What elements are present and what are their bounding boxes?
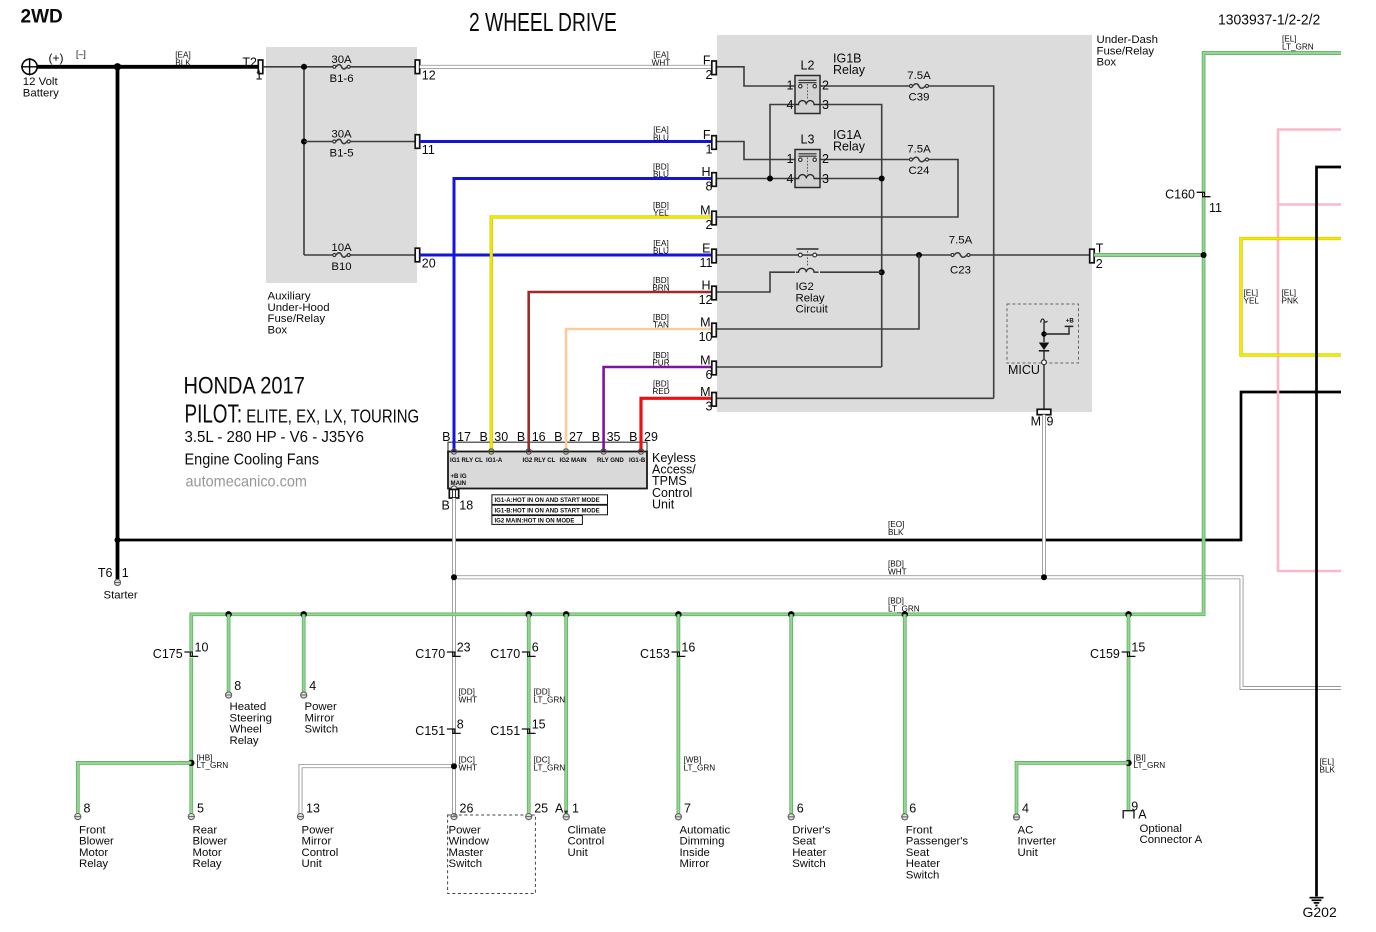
label power mirror control unit xyxy=(302,824,339,870)
svg-text:C153: C153 xyxy=(640,647,670,661)
svg-text:WHT: WHT xyxy=(888,567,907,576)
label C159 15 xyxy=(1090,641,1145,662)
svg-text:Inside: Inside xyxy=(680,847,710,859)
wire to fuse B10 xyxy=(304,254,333,256)
svg-text:15: 15 xyxy=(532,718,546,732)
svg-text:Dimming: Dimming xyxy=(680,836,725,848)
svg-text:7.5A: 7.5A xyxy=(907,143,931,155)
connector C175 xyxy=(184,651,198,657)
wire drop C159 to optional connector (lt green) xyxy=(1127,614,1131,810)
connector pin F2 xyxy=(712,61,717,75)
fuse B1-5 30A xyxy=(333,139,415,143)
MICU boundary circle xyxy=(1042,360,1047,365)
terminal pin 25 xyxy=(526,814,532,820)
node bus climate drop xyxy=(563,611,569,617)
fuse C24 7.5A xyxy=(910,157,929,162)
svg-text:26: 26 xyxy=(460,802,474,816)
label 7.5A C23 xyxy=(949,234,973,276)
svg-text:BLK: BLK xyxy=(888,528,904,537)
connector pin 20 xyxy=(415,248,420,262)
svg-text:Power: Power xyxy=(449,824,481,836)
fuse B10 10A xyxy=(333,253,415,257)
wire branch to power mirror control unit (white) xyxy=(301,766,455,813)
wire label [EA] BLK xyxy=(175,51,191,68)
terminal passenger seat pin 6 xyxy=(902,814,908,820)
svg-text:5: 5 xyxy=(197,802,204,816)
label E 11 xyxy=(700,242,713,271)
note box IG1-A xyxy=(492,495,608,505)
svg-text:4: 4 xyxy=(309,679,316,693)
svg-text:Mirror: Mirror xyxy=(305,712,335,724)
svg-text:10: 10 xyxy=(699,330,713,344)
svg-text:B: B xyxy=(479,430,487,444)
svg-text:IG1-B:HOT IN ON AND START MODE: IG1-B:HOT IN ON AND START MODE xyxy=(495,509,600,515)
terminal rear blower pin 5 xyxy=(188,814,194,820)
auxiliary under-hood fuse/relay box xyxy=(266,47,417,283)
connector C170 23 on white drop xyxy=(447,652,461,656)
wire label [BD] WHT xyxy=(888,560,907,577)
svg-text:PUR: PUR xyxy=(652,359,669,368)
svg-text:M: M xyxy=(700,354,710,368)
svg-text:30A: 30A xyxy=(331,54,352,66)
svg-text:B1-5: B1-5 xyxy=(329,148,353,160)
svg-text:IG1-A:HOT IN ON AND START MODE: IG1-A:HOT IN ON AND START MODE xyxy=(495,498,600,504)
svg-text:Switch: Switch xyxy=(449,858,483,870)
svg-text:Unit: Unit xyxy=(1018,847,1039,859)
svg-text:C24: C24 xyxy=(909,165,930,177)
svg-text:C175: C175 xyxy=(153,647,183,661)
keyless pin circle B29 xyxy=(638,449,643,454)
wire MICU circle to M9 pin xyxy=(1043,365,1045,410)
svg-text:ELITE, EX, LX, TOURING: ELITE, EX, LX, TOURING xyxy=(246,406,419,427)
svg-text:F: F xyxy=(703,128,711,142)
svg-text:RLY GND: RLY GND xyxy=(597,457,624,464)
svg-text:Optional: Optional xyxy=(1140,823,1182,835)
battery B1 xyxy=(21,58,38,75)
label C153 16 xyxy=(640,641,695,662)
connector pin M2 xyxy=(712,211,717,225)
label B 18 xyxy=(441,499,473,513)
IG2 relay circuit coil xyxy=(796,268,819,272)
label T6 1 xyxy=(98,566,129,580)
terminal heated steering pin 8 xyxy=(226,692,232,698)
svg-text:IG2: IG2 xyxy=(796,281,814,293)
wire label [BD] TAN xyxy=(653,313,669,330)
svg-text:C170: C170 xyxy=(415,647,445,661)
note box IG1-B xyxy=(492,505,608,515)
wire B27 to M10 (tan) xyxy=(566,329,712,452)
svg-text:17: 17 xyxy=(457,430,471,444)
wire label [EA] BLU lower xyxy=(653,239,669,256)
node HB branch junction xyxy=(188,760,194,766)
node bus drivers seat drop xyxy=(788,611,794,617)
svg-text:2 WHEEL DRIVE: 2 WHEEL DRIVE xyxy=(469,7,617,37)
keyless pin circle B30 xyxy=(489,449,494,454)
label front passengers seat heater switch xyxy=(906,824,969,881)
relay L3 IG1A xyxy=(795,150,820,188)
svg-text:8: 8 xyxy=(706,180,713,194)
svg-text:BLU: BLU xyxy=(653,170,669,179)
svg-text:Heater: Heater xyxy=(792,847,826,859)
svg-text:8: 8 xyxy=(457,718,464,732)
svg-text:Blower: Blower xyxy=(193,836,228,848)
label 7.5A C24 xyxy=(907,143,931,177)
svg-text:LT_GRN: LT_GRN xyxy=(534,695,566,704)
svg-text:7.5A: 7.5A xyxy=(907,70,931,82)
label under-dash box name xyxy=(1097,34,1158,69)
wire B16 to H12 (brown-red) xyxy=(529,292,712,452)
svg-text:Front: Front xyxy=(906,824,933,836)
wire EL PNK pink net xyxy=(1278,130,1341,572)
svg-text:9: 9 xyxy=(1131,800,1138,814)
label T 2 right xyxy=(1096,242,1104,272)
label heated steering wheel relay xyxy=(230,701,272,747)
label M 10 xyxy=(699,316,713,345)
label keyless pin names xyxy=(450,457,646,464)
svg-text:12: 12 xyxy=(699,293,713,307)
svg-text:6: 6 xyxy=(706,368,713,382)
svg-text:E: E xyxy=(702,242,710,256)
svg-text:30: 30 xyxy=(494,430,508,444)
wire drop power mirror switch (lt green) xyxy=(302,614,306,692)
wire B17 to H8 (blue) xyxy=(454,179,712,453)
svg-text:Mirror: Mirror xyxy=(302,836,332,848)
svg-text:27: 27 xyxy=(569,430,583,444)
svg-text:YEL: YEL xyxy=(653,209,669,218)
svg-text:8: 8 xyxy=(84,802,91,816)
svg-text:C151: C151 xyxy=(415,724,445,738)
svg-text:7: 7 xyxy=(684,802,691,816)
terminal drivers seat pin 6 xyxy=(788,814,794,820)
wire B30 to M2 (yellow) xyxy=(491,217,712,452)
svg-text:Inverter: Inverter xyxy=(1018,836,1057,848)
svg-text:+B IG: +B IG xyxy=(451,473,467,480)
terminal power window master pin 26 xyxy=(451,814,457,820)
under-dash internal wire E11 through IG2 contact and fuse C23 to T2 xyxy=(714,254,1090,256)
wire inside under-hood box from T2 xyxy=(263,66,333,68)
wire drop passenger seat heater (lt green) xyxy=(903,614,907,813)
svg-text:T2: T2 xyxy=(242,56,257,70)
svg-text:1: 1 xyxy=(256,69,263,83)
wire EL BLK black net to ground xyxy=(1317,167,1342,897)
wire label [BD] LT_GRN bus xyxy=(888,597,920,614)
under-dash internal wire F1 to L3 pin1 xyxy=(714,142,795,160)
connector pin T2 right xyxy=(1090,249,1095,263)
keyless pin circle B35 xyxy=(601,449,606,454)
svg-text:9: 9 xyxy=(1047,415,1054,429)
connector pin H12 xyxy=(712,286,717,300)
wire B35 to M6 (purple) xyxy=(604,367,712,452)
svg-text:Automatic: Automatic xyxy=(680,824,731,836)
label IG1A Relay xyxy=(833,128,866,154)
svg-text:WHT: WHT xyxy=(652,58,671,67)
ground G202 xyxy=(1310,897,1324,907)
wire drop to C175 rear blower (lt green) xyxy=(189,658,193,814)
label auxiliary box name xyxy=(268,291,330,337)
connector pin E11 xyxy=(712,249,717,263)
svg-text:10A: 10A xyxy=(331,242,352,254)
svg-text:Unit: Unit xyxy=(302,858,323,870)
svg-text:11: 11 xyxy=(1209,201,1222,215)
label AC inverter unit xyxy=(1018,824,1057,859)
svg-text:C39: C39 xyxy=(909,91,930,103)
wire drop climate control (lt green) xyxy=(564,614,568,813)
svg-text:2: 2 xyxy=(822,79,829,93)
svg-text:2: 2 xyxy=(1096,257,1103,271)
svg-text:B10: B10 xyxy=(331,261,351,273)
IG2 relay circuit contact xyxy=(797,249,819,267)
connector C159 15 xyxy=(1122,651,1136,657)
label keyless unit name xyxy=(652,451,696,511)
svg-text:Unit: Unit xyxy=(568,847,589,859)
wire pin12 to F2 (white) xyxy=(420,65,712,69)
svg-text:PNK: PNK xyxy=(1282,296,1299,305)
label C151 8 xyxy=(415,718,463,739)
svg-text:1: 1 xyxy=(572,802,579,816)
marker climate terminal triangle xyxy=(564,811,568,815)
node B18 BD WHT junction xyxy=(451,574,457,580)
svg-text:Power: Power xyxy=(302,824,334,836)
wire label [EL] LT_GRN top xyxy=(1282,35,1314,52)
wire EL YEL yellow net xyxy=(1241,239,1341,356)
label T2 1 xyxy=(242,56,262,83)
svg-text:B: B xyxy=(517,430,525,444)
label IG1B Relay xyxy=(833,51,866,77)
svg-text:TAN: TAN xyxy=(653,321,669,330)
connector T6 pin 1 starter terminal xyxy=(114,579,120,585)
svg-text:MICU: MICU xyxy=(1008,363,1040,377)
svg-text:6: 6 xyxy=(532,641,539,655)
label +B IG MAIN xyxy=(451,473,467,487)
svg-text:B1-6: B1-6 xyxy=(329,73,353,85)
svg-text:Relay: Relay xyxy=(79,858,108,870)
wire pin11 to F1 (blue) xyxy=(420,140,712,143)
label power mirror switch xyxy=(305,701,339,736)
node BI branch junction xyxy=(1125,760,1131,766)
connector pin 12 xyxy=(415,60,420,74)
svg-text:Auxiliary: Auxiliary xyxy=(268,291,311,303)
under-dash internal wire L2 pin2 through fuse C39 down to M3 xyxy=(714,86,994,398)
svg-text:AC: AC xyxy=(1018,824,1034,836)
svg-text:B: B xyxy=(592,430,600,444)
svg-text:+B: +B xyxy=(1066,318,1075,325)
note box IG2 MAIN xyxy=(492,516,583,525)
wire [EO] BLK branch to right side xyxy=(118,392,1342,540)
connector C160 xyxy=(1197,192,1211,198)
connector T2 pin 1 xyxy=(258,60,263,74)
svg-text:6: 6 xyxy=(909,802,916,816)
node bus C170-6 drop xyxy=(526,611,532,617)
svg-text:BRN: BRN xyxy=(652,284,669,293)
svg-text:M: M xyxy=(700,316,710,330)
svg-text:YEL: YEL xyxy=(1244,296,1260,305)
label M 6 xyxy=(700,354,712,383)
node bus passenger seat drop xyxy=(902,611,908,617)
node E11 C23 junction xyxy=(916,252,922,258)
svg-text:1: 1 xyxy=(706,143,713,157)
terminal auto dimming pin 7 xyxy=(675,814,681,820)
wire label [EL] YEL xyxy=(1244,289,1260,306)
svg-text:Blower: Blower xyxy=(79,836,114,848)
relay L2 IG1B xyxy=(795,76,820,114)
svg-text:LT_GRN: LT_GRN xyxy=(684,763,716,772)
svg-text:Wheel: Wheel xyxy=(230,724,262,736)
svg-text:M: M xyxy=(700,204,710,218)
svg-text:LT_GRN: LT_GRN xyxy=(1134,761,1166,770)
label M 9 xyxy=(1031,415,1054,429)
svg-text:IG2 MAIN:HOT IN ON MODE: IG2 MAIN:HOT IN ON MODE xyxy=(495,519,575,525)
svg-text:IG2 MAIN: IG2 MAIN xyxy=(560,457,587,464)
node L3 pin3 junction xyxy=(879,176,885,182)
svg-text:B: B xyxy=(554,430,562,444)
node bus heated steering drop xyxy=(225,611,231,617)
node IG2 coil junction xyxy=(879,269,885,275)
svg-text:Motor: Motor xyxy=(79,847,108,859)
keyless pin circle B27 xyxy=(563,449,568,454)
svg-text:16: 16 xyxy=(681,641,695,655)
wire to fuse B1-5 xyxy=(304,141,333,143)
svg-text:30A: 30A xyxy=(331,129,352,141)
label relay L2 pins 1 2 4 3 xyxy=(787,79,829,112)
svg-text:2: 2 xyxy=(706,218,713,232)
svg-text:20: 20 xyxy=(422,257,436,271)
wire label [BD] BLU xyxy=(653,162,669,179)
svg-text:1: 1 xyxy=(122,566,129,580)
svg-text:12 Volt: 12 Volt xyxy=(23,76,59,88)
svg-text:F: F xyxy=(703,53,711,67)
node power mirror branch junction xyxy=(451,763,457,769)
label H 8 xyxy=(701,165,712,194)
svg-text:Relay: Relay xyxy=(833,63,866,77)
svg-text:2: 2 xyxy=(706,68,713,82)
svg-text:B: B xyxy=(442,430,450,444)
fuse B1-6 30A xyxy=(333,65,415,69)
svg-text:Heater: Heater xyxy=(906,858,940,870)
svg-text:C160: C160 xyxy=(1165,188,1195,202)
svg-text:18: 18 xyxy=(459,499,473,513)
wire M9 down to BD WHT junction (white) xyxy=(1042,415,1046,578)
svg-text:Switch: Switch xyxy=(906,870,940,882)
svg-text:1303937-1/2-2/2: 1303937-1/2-2/2 xyxy=(1218,12,1320,29)
svg-text:T6: T6 xyxy=(98,566,113,580)
wire label [EA] BLU xyxy=(653,126,669,143)
svg-text:L2: L2 xyxy=(801,59,815,73)
node bus C159 drop xyxy=(1125,611,1131,617)
wire label [BI] LT_GRN xyxy=(1134,753,1166,770)
wire pin20 to E11 (blue) xyxy=(420,254,712,257)
label relay L3 pins 1 2 4 3 xyxy=(787,152,829,186)
wire BD WHT horizontal and right path (white) xyxy=(454,577,1341,688)
keyless pin circle B17 xyxy=(451,449,456,454)
svg-text:LT_GRN: LT_GRN xyxy=(197,761,229,770)
label H 12 xyxy=(699,279,713,308)
connector pin 11 xyxy=(415,135,420,149)
label IG2 Relay Circuit xyxy=(796,281,829,316)
svg-text:4: 4 xyxy=(787,172,794,186)
svg-text:Under-Dash: Under-Dash xyxy=(1097,34,1158,46)
svg-text:Switch: Switch xyxy=(792,858,826,870)
svg-text:C151: C151 xyxy=(490,724,520,738)
svg-text:IG1-B: IG1-B xyxy=(629,457,646,464)
svg-text:4: 4 xyxy=(787,98,794,112)
connector pin M10 xyxy=(712,323,717,337)
svg-text:C170: C170 xyxy=(490,647,520,661)
svg-text:13: 13 xyxy=(306,802,320,816)
wire EL LT_GRN main green net xyxy=(191,53,1341,651)
svg-text:C23: C23 xyxy=(950,264,971,276)
svg-text:16: 16 xyxy=(532,430,546,444)
terminal power mirror switch pin 4 xyxy=(301,692,307,698)
svg-text:6: 6 xyxy=(797,802,804,816)
label PILOT trims xyxy=(185,400,420,428)
wire label [DD] WHT xyxy=(459,688,478,705)
svg-text:Rear: Rear xyxy=(193,824,218,836)
label F 2 xyxy=(703,53,713,82)
wire label [DC] LT_GRN xyxy=(534,756,566,773)
svg-text:H: H xyxy=(701,279,710,293)
wire label [BD] RED xyxy=(652,379,669,396)
power window master switch dashed box xyxy=(448,815,536,894)
under-dash internal wire junction down to M10 xyxy=(714,255,919,329)
svg-text:PILOT:: PILOT: xyxy=(185,400,243,428)
svg-text:Seat: Seat xyxy=(792,836,816,848)
svg-text:1: 1 xyxy=(787,79,794,93)
svg-text:12: 12 xyxy=(422,68,436,82)
svg-text:Circuit: Circuit xyxy=(796,304,829,316)
svg-text:3: 3 xyxy=(822,172,829,186)
label 30A B1-6 xyxy=(329,54,353,85)
svg-text:RED: RED xyxy=(652,387,669,396)
label 10A B10 xyxy=(331,242,352,273)
svg-text:1: 1 xyxy=(787,152,794,166)
node bus C153 drop xyxy=(675,611,681,617)
svg-text:Control: Control xyxy=(302,847,339,859)
label F 1 xyxy=(703,128,713,157)
node H8 coil junction xyxy=(767,176,773,182)
label M 3 xyxy=(700,385,712,414)
wire label [DD] LT_GRN xyxy=(534,688,566,705)
connector pin M6 xyxy=(712,361,717,375)
svg-text:Steering: Steering xyxy=(230,712,272,724)
wire branch to front blower (lt green) xyxy=(78,763,192,813)
svg-text:B: B xyxy=(629,430,637,444)
label C170 6 xyxy=(490,641,538,662)
wire label [BD] YEL xyxy=(653,201,669,218)
svg-text:Unit: Unit xyxy=(652,497,675,511)
under-dash internal wire H8 up to L2 pin4 xyxy=(770,105,795,179)
svg-text:BLU: BLU xyxy=(653,133,669,142)
connector M9 pin bar xyxy=(1037,409,1051,414)
connector pin H8 xyxy=(712,173,717,187)
svg-text:A: A xyxy=(555,802,564,816)
svg-text:BLK: BLK xyxy=(1320,765,1336,774)
svg-text:8: 8 xyxy=(234,679,241,693)
svg-text:3: 3 xyxy=(706,399,713,413)
MICU internal wire top xyxy=(1043,322,1045,343)
svg-text:LT_GRN: LT_GRN xyxy=(534,763,566,772)
terminal climate pin 1 xyxy=(563,814,569,820)
under-dash internal wire H8 to L3 pin4 xyxy=(714,178,795,180)
svg-text:35: 35 xyxy=(607,430,621,444)
svg-text:2: 2 xyxy=(822,152,829,166)
wire battery to T2 (black) xyxy=(37,65,258,69)
wire label [HB] LT_GRN xyxy=(197,753,229,770)
svg-text:Starter: Starter xyxy=(104,590,138,602)
battery name label xyxy=(23,76,59,99)
wire label [EA] WHT xyxy=(652,51,671,68)
svg-text:25: 25 xyxy=(534,802,548,816)
svg-text:10: 10 xyxy=(195,641,209,655)
